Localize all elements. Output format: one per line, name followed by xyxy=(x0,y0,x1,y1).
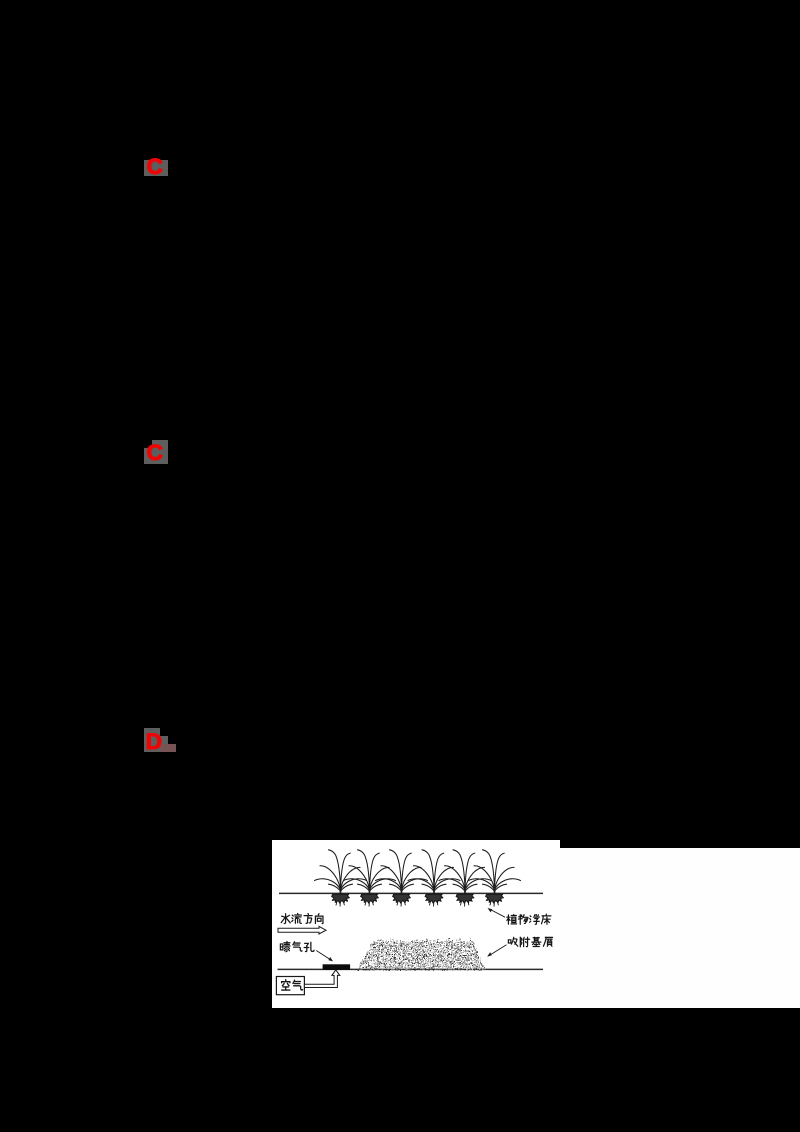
plants xyxy=(315,850,367,894)
top water line xyxy=(279,892,543,894)
label: 空气 xyxy=(282,980,303,990)
substrate mound (speckled) xyxy=(357,938,486,971)
white figure background xyxy=(272,840,560,1008)
label: 植物浮床 xyxy=(507,914,551,924)
white text band right of figure xyxy=(560,848,800,1008)
bottom channel line xyxy=(278,968,544,970)
answer marker 1: red letter C on gray highlight xyxy=(144,160,168,176)
air box xyxy=(276,977,304,995)
label: 曝气孔 xyxy=(280,942,314,952)
leader arrow to substrate xyxy=(487,945,506,957)
hollow air pipe arrow xyxy=(304,970,339,988)
figure: floating plant bed water treatment diagram xyxy=(272,840,560,1008)
answer marker 2: red letter C on stepped gray highlight xyxy=(152,440,168,448)
leader arrow to aeration hole xyxy=(316,951,333,962)
aeration hole: black rect xyxy=(323,964,351,970)
label: 吸附基质 xyxy=(508,937,552,946)
leader arrow to plant bed xyxy=(488,908,506,917)
hollow flow arrow xyxy=(278,926,326,934)
answer marker 3: red letter D on gray highlight with reddish tail xyxy=(144,728,160,752)
root clumps xyxy=(332,894,350,906)
label: 水流方向 xyxy=(281,914,323,924)
